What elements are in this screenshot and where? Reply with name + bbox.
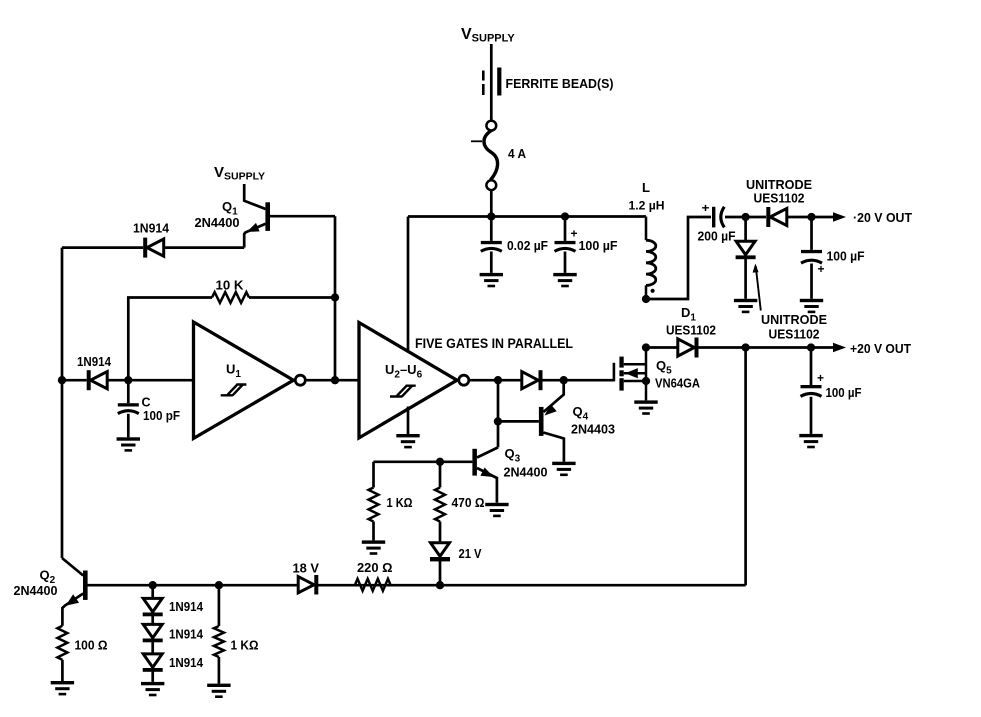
op-amp U2-U6 Schmitt inverters (359, 323, 457, 438)
wire Q3 base to 1K (372, 462, 375, 488)
wire zener to bottom bus (439, 561, 442, 585)
ferrite bead FB1 (483, 68, 501, 96)
diode 21V zener (430, 543, 450, 562)
svg-text:1.2 µH: 1.2 µH (629, 199, 665, 213)
U2 hysteresis symbol (390, 386, 416, 397)
wire left feedback bus (61, 248, 64, 558)
wire stack 3 to ground (151, 672, 154, 682)
junction Q5 drain (642, 343, 650, 351)
wire C 100uF to ground (564, 252, 567, 273)
wire 470 top (439, 462, 442, 488)
wire U1 output to U2 input (305, 379, 359, 382)
wire Q1 emitter (244, 224, 265, 248)
capacitor 0.02uF (481, 241, 502, 251)
wire inductor junction up to 200uF (646, 217, 711, 299)
svg-text:2N4400: 2N4400 (195, 215, 240, 230)
diode UES1102 (-20V rectifier) (766, 207, 787, 227)
op-amp U1 Schmitt inverter (194, 322, 294, 438)
wire 470 to zener (439, 522, 442, 543)
svg-text:FERRITE BEAD(S): FERRITE BEAD(S) (506, 76, 614, 91)
wire stack 1-2 (151, 616, 154, 624)
wire bus to 1K (218, 585, 221, 626)
resistor 470 (435, 488, 445, 522)
transistor Q2 2N4400 base bar (83, 571, 88, 600)
Q3 emitter arrow (480, 468, 493, 478)
ground (1K bus) (207, 684, 230, 698)
svg-text:1N914: 1N914 (133, 221, 170, 236)
fuse F1 4A (471, 121, 498, 190)
junction inductor bottom (642, 295, 650, 303)
wire 10K feedback left leg (128, 298, 212, 381)
svg-text:+20 V OUT: +20 V OUT (850, 341, 911, 356)
svg-text:1N914: 1N914 (169, 655, 204, 670)
svg-text:100 pF: 100 pF (143, 408, 180, 423)
diode 1N914 stack 2 (143, 624, 163, 642)
svg-text:0.02 µF: 0.02 µF (507, 238, 548, 253)
wire Q2 emitter (62, 594, 83, 626)
wire bottom bus (88, 584, 746, 587)
wire stack 2-3 (151, 642, 154, 654)
junction Q4 base / Q3 collector (494, 417, 502, 425)
svg-text:1N914: 1N914 (169, 599, 204, 614)
wire U2 ground stem (407, 407, 410, 435)
wire bus to 1N914 (62, 379, 87, 382)
wire node to catch diode (744, 217, 747, 241)
junction zener / bottom bus (436, 581, 444, 589)
wire top supply rail (408, 215, 646, 218)
svg-text:L: L (642, 180, 650, 195)
svg-text:+: + (571, 227, 578, 241)
diode UNITRODE UES1102 (catch, -20V) (736, 241, 756, 259)
ground (0.02uF) (480, 273, 503, 287)
junction top rail / 100uF (561, 212, 569, 220)
junction U2 out node (494, 376, 502, 384)
ground (100 ohm) (51, 681, 74, 695)
wire U1 input to C (127, 380, 130, 403)
wire catch diode to ground (744, 259, 747, 299)
U1 hysteresis symbol (221, 385, 247, 396)
svg-text:4 A: 4 A (508, 146, 527, 161)
wire 10K to right node (249, 296, 335, 299)
svg-text:1 KΩ: 1 KΩ (387, 495, 413, 510)
svg-text:470 Ω: 470 Ω (452, 495, 485, 510)
Q4 emitter arrow (545, 404, 557, 415)
junction -20V cap/diode node (741, 213, 749, 221)
inductor L 1.2uH (646, 217, 656, 300)
ground (input 100uF) (553, 273, 576, 287)
junction top rail / fuse (487, 212, 495, 220)
wire Vsupply to Q1 collector (244, 184, 265, 209)
svg-text:100 µF: 100 µF (579, 238, 618, 253)
wire Q1 emitter row (62, 246, 143, 249)
wire diode to -20V node (787, 216, 833, 219)
wire Q1 base column (334, 216, 337, 380)
svg-text:2N4400: 2N4400 (504, 465, 548, 480)
wire 1N914 to Q1 emitter (164, 246, 244, 249)
svg-text:+: + (702, 201, 710, 215)
wire C to ground (127, 414, 130, 438)
wire U2 node to Q4 base column (497, 380, 500, 447)
transistor Q3 2N4400 base bar (472, 449, 477, 476)
junction gate node (560, 376, 568, 384)
junction Q5 source (642, 377, 650, 385)
diode 1N914 stack 3 (143, 654, 163, 672)
ground (Q3 emitter) (485, 503, 508, 517)
wire -20V node to 100uF (810, 217, 813, 250)
ground (Q4 collector) (552, 462, 575, 476)
wire Vsupply to ferrite bead (490, 44, 493, 121)
wire Q1 base lead (270, 215, 335, 218)
ground (1N914 stack) (141, 682, 164, 696)
svg-text:VN64GA: VN64GA (655, 376, 701, 391)
svg-text:UES1102: UES1102 (666, 323, 716, 338)
wire drain node to D1 (646, 346, 678, 349)
Q2 emitter arrow (66, 594, 79, 605)
svg-text:2N4400: 2N4400 (14, 583, 58, 598)
svg-text:UES1102: UES1102 (769, 327, 820, 342)
junction +20V / bottom feedback (741, 343, 749, 351)
transistor Q5 VN64GA MOSFET (614, 348, 646, 401)
diode 18V (pointing right) (298, 575, 318, 595)
ground (Q5 source) (634, 400, 657, 414)
output arrow -20V (833, 212, 846, 221)
junction U1 out / feedback (331, 376, 339, 384)
wire +20V feedback vertical (744, 348, 747, 586)
svg-text:UES1102: UES1102 (754, 191, 805, 206)
resistor 220 ohm (355, 579, 391, 591)
svg-text:100 µF: 100 µF (826, 385, 862, 400)
transistor Q4 2N4403 base bar (539, 407, 544, 436)
diode 1N914 (timing) (87, 370, 108, 390)
wire 100 to ground (61, 660, 64, 681)
wire gate node to Q4 emitter (544, 380, 564, 412)
wire rail to C 0.02uF (490, 217, 493, 241)
junction bus / 1K (215, 581, 223, 589)
resistor 1K (Q3 base) (369, 488, 379, 522)
wire top rail down to U2-U6 power (407, 217, 410, 351)
wire C 0.02uF to ground (490, 252, 493, 273)
svg-text:2N4403: 2N4403 (571, 422, 615, 437)
junction U1 input / C (124, 376, 132, 384)
svg-text:UNITRODE: UNITRODE (761, 312, 827, 327)
diode 1N914 (Q1 path) (143, 238, 164, 258)
wire 100uF to ground (-20V) (810, 264, 813, 299)
svg-text:1N914: 1N914 (77, 354, 112, 369)
capacitor 200uF (coupling) (712, 207, 724, 228)
ground (-20V cap) (800, 299, 823, 313)
diode (gate drive) (522, 370, 543, 390)
wire diode to gate node (542, 379, 614, 382)
capacitor 100uF (+20V output) (801, 385, 822, 396)
ground (1K) (362, 540, 385, 554)
svg-text:21 V: 21 V (459, 546, 482, 561)
wire 1K to ground (bus) (218, 657, 221, 684)
junction +20V / 100uF (807, 343, 815, 351)
svg-text:18 V: 18 V (293, 561, 320, 576)
svg-text:1 KΩ: 1 KΩ (231, 638, 259, 653)
capacitor C 100pF (118, 403, 139, 413)
wire fuse to top rail (490, 190, 493, 216)
wire D1 to +20V node (698, 346, 833, 349)
diode D1 UES1102 (678, 338, 699, 358)
resistor 1K (bus) (214, 626, 224, 657)
capacitor 100uF (input) (555, 241, 576, 251)
wire Q4 collector (544, 433, 564, 462)
svg-text:220 Ω: 220 Ω (357, 560, 393, 575)
diode 1N914 stack 1 (143, 598, 163, 616)
ground (U2-U6) (396, 434, 419, 448)
wire Q3 collector (477, 447, 498, 457)
capacitor 100uF (-20V output) (801, 250, 822, 263)
wire 100uF to ground (+20V) (810, 397, 813, 434)
svg-text:100 Ω: 100 Ω (75, 638, 108, 653)
junction left bus / 1N914 (58, 376, 66, 384)
wire bus to 1N914 stack (151, 585, 154, 598)
wire Q3 base row (374, 460, 473, 463)
svg-text:1N914: 1N914 (169, 627, 204, 642)
junction -20V output node (807, 213, 815, 221)
resistor 100 (57, 626, 67, 660)
junction Q3 base / 470 (436, 458, 444, 466)
Q1 emitter arrow (247, 223, 260, 232)
svg-text:200 µF: 200 µF (698, 229, 736, 244)
wire Q2 collector (62, 558, 83, 576)
transistor Q1 2N4400 base bar (265, 202, 270, 231)
junction 10K / Q1 column (331, 293, 339, 301)
svg-text:+: + (818, 262, 825, 276)
resistor 10K (212, 292, 249, 303)
wire 1N914 to U1 input (108, 379, 194, 382)
svg-text:·20 V OUT: ·20 V OUT (853, 210, 912, 225)
wire rail to C 100uF (564, 217, 567, 241)
junction bus / stack (149, 581, 157, 589)
svg-text:100 µF: 100 µF (827, 249, 865, 264)
svg-text:10 K: 10 K (216, 278, 245, 293)
output arrow +20V (833, 343, 846, 352)
ground (C 100pF) (117, 437, 140, 451)
U2 output bubble (459, 375, 469, 385)
wire Q3 emitter (477, 468, 497, 503)
pointer line to catch diode (753, 264, 761, 311)
wire Q4 base lead (498, 420, 539, 423)
ground (catch diode) (734, 299, 757, 313)
svg-text:+: + (817, 371, 824, 385)
wire 200uF to node (725, 216, 766, 219)
svg-text:FIVE GATES IN PARALLEL: FIVE GATES IN PARALLEL (415, 336, 573, 351)
wire U2 output (469, 379, 522, 382)
wire 1K to ground (372, 522, 375, 541)
wire +20V node to 100uF (810, 348, 813, 386)
ground (+20V cap) (799, 434, 822, 448)
U1 output bubble (295, 375, 305, 385)
